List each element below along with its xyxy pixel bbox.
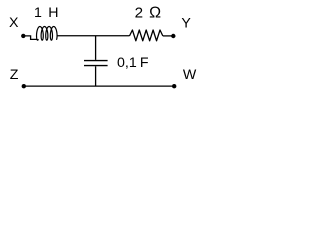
svg-text:Ω: Ω: [149, 4, 161, 21]
wire resistor to Y: [163, 35, 174, 37]
svg-text:H: H: [48, 5, 58, 21]
wire inductor to junction and resistor: [57, 35, 129, 37]
wire X to inductor: [23, 36, 37, 40]
resistor R1 zigzag: [130, 30, 163, 41]
bottom wire Z to W: [24, 85, 174, 87]
terminal dot Y: [171, 34, 175, 38]
svg-text:2: 2: [135, 4, 143, 21]
svg-text:W: W: [183, 67, 197, 83]
svg-text:0,1: 0,1: [117, 55, 137, 71]
svg-text:Z: Z: [10, 67, 19, 83]
svg-text:1: 1: [34, 5, 42, 21]
inductor L1 coil winding: [37, 27, 58, 41]
terminal dot X: [21, 34, 25, 38]
capacitor C1 bottom plate: [84, 65, 108, 67]
terminal dot W: [172, 84, 176, 88]
svg-text:Y: Y: [181, 15, 191, 31]
terminal dot Z: [22, 84, 26, 88]
svg-text:F: F: [140, 55, 149, 71]
svg-text:X: X: [9, 15, 19, 31]
wire capacitor down to bottom rail: [95, 66, 97, 86]
wire top junction down to capacitor: [95, 36, 97, 60]
capacitor C1 top plate: [84, 60, 108, 62]
